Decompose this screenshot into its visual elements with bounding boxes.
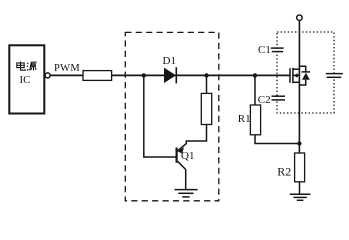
svg-text:IC: IC <box>20 74 31 86</box>
svg-text:C2: C2 <box>258 94 271 106</box>
svg-text:PWM: PWM <box>54 63 80 74</box>
svg-text:Q1: Q1 <box>181 150 194 162</box>
svg-text:D1: D1 <box>163 55 176 67</box>
svg-text:C1: C1 <box>258 44 271 56</box>
svg-text:R1: R1 <box>238 113 251 125</box>
svg-text:R2: R2 <box>277 164 291 178</box>
